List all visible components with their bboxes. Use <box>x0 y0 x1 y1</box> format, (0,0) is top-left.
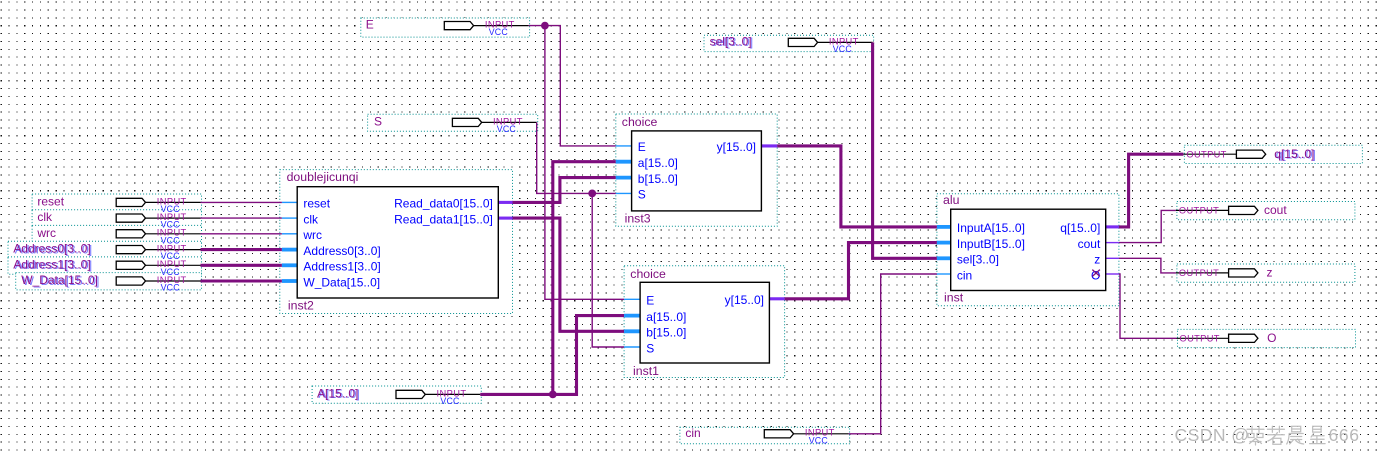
selection box output pin O <box>1178 329 1356 347</box>
svg-text:VCC: VCC <box>833 44 853 54</box>
svg-text:q[15..0]: q[15..0] <box>1274 147 1314 161</box>
svg-text:reset: reset <box>37 194 64 208</box>
input pin E <box>366 18 529 38</box>
port stub inst1.E <box>624 298 640 300</box>
svg-text:cin: cin <box>957 268 972 282</box>
output pin z <box>1176 266 1273 280</box>
port stub inst1.S <box>624 346 640 348</box>
wire reset to inst2.reset <box>201 201 282 203</box>
port stub inst2.wrc <box>282 233 297 235</box>
svg-text:sel[3..0]: sel[3..0] <box>710 34 752 48</box>
port stub inst1.y <box>769 297 784 300</box>
svg-text:VCC: VCC <box>489 27 509 37</box>
output pin cout <box>1176 203 1287 217</box>
svg-text:OUTPUT: OUTPUT <box>1186 149 1226 159</box>
input pin clk <box>37 210 200 230</box>
svg-text:inst1: inst1 <box>633 364 659 378</box>
svg-text:inst3: inst3 <box>625 211 651 225</box>
selection box input pin cin <box>680 427 850 444</box>
svg-text:666: 666 <box>1329 425 1360 445</box>
svg-text:Address1[3..0]: Address1[3..0] <box>303 260 380 274</box>
selection box doublejicunqi <box>280 170 513 314</box>
input pin sel[3..0] <box>710 34 873 54</box>
svg-text:a[15..0]: a[15..0] <box>638 156 678 170</box>
svg-text:S: S <box>374 114 382 128</box>
svg-text:InputA[15..0]: InputA[15..0] <box>957 221 1025 235</box>
wire inst3.y to alu.InputA <box>777 146 937 227</box>
port stub inst2.Address0 <box>282 248 297 252</box>
svg-text:E: E <box>646 294 654 308</box>
wire W_Data to inst2.W_Data <box>201 279 282 282</box>
selection box choice inst1 <box>624 266 785 378</box>
selection box output pin q[15..0] <box>1184 145 1362 163</box>
port stub alu.cin <box>937 273 951 275</box>
output pin q[15..0] <box>1183 147 1315 162</box>
svg-text:q[15..0]: q[15..0] <box>1060 221 1100 235</box>
svg-text:y[15..0]: y[15..0] <box>725 293 764 307</box>
selection box input pin clk <box>32 210 201 227</box>
wire Address1 to inst2.Address1 <box>201 264 282 267</box>
selection box input pin Address0[3..0] <box>8 241 202 258</box>
input pin reset <box>37 194 200 214</box>
wire S branch to inst1.S <box>592 193 624 347</box>
svg-text:z: z <box>1267 266 1273 280</box>
port stub alu.InputA <box>937 225 951 229</box>
selection box input pin A[15..0] <box>312 386 481 403</box>
port stub inst2.clk <box>282 217 297 219</box>
svg-text:Address1[3..0]: Address1[3..0] <box>13 257 90 271</box>
svg-text:z: z <box>1094 253 1100 267</box>
svg-text:reset: reset <box>303 197 330 211</box>
block choice (inst1) <box>630 267 769 378</box>
selection box input pin sel[3..0] <box>704 35 874 51</box>
port stub inst3.b <box>616 176 632 180</box>
svg-text:VCC: VCC <box>497 124 517 134</box>
junction E net <box>541 22 549 30</box>
port stub alu.q <box>1106 225 1119 228</box>
junction S net <box>588 190 596 198</box>
selection box input pin S <box>368 114 538 131</box>
svg-text:cout: cout <box>1264 203 1287 217</box>
port stub alu.z <box>1106 257 1119 259</box>
svg-text:cin: cin <box>685 426 700 440</box>
svg-text:clk: clk <box>37 210 53 224</box>
wire wrc to inst2.wrc <box>201 233 282 235</box>
svg-text:E: E <box>366 18 374 32</box>
port stub inst2.reset <box>282 201 297 203</box>
svg-text:sel[3..0]: sel[3..0] <box>957 253 999 267</box>
svg-text:alu: alu <box>943 193 960 207</box>
block alu (inst) <box>943 193 1106 305</box>
svg-text:W_Data[15..0]: W_Data[15..0] <box>303 275 380 289</box>
input pin Address1[3..0] <box>13 257 200 277</box>
wire cin to alu.cin <box>849 274 937 434</box>
svg-text:VCC: VCC <box>440 396 460 406</box>
input pin cin <box>685 426 848 446</box>
watermark CSDN @蓼若晨星666 <box>1175 425 1360 445</box>
svg-text:E: E <box>638 140 646 154</box>
svg-text:OUTPUT: OUTPUT <box>1179 268 1219 278</box>
port stub inst2.W_Data <box>282 279 297 283</box>
selection box input pin Address1[3..0] <box>8 257 202 274</box>
svg-text:Read_data0[15..0]: Read_data0[15..0] <box>394 197 493 211</box>
wire clk to inst2.clk <box>201 217 282 219</box>
junction A bus <box>549 391 557 399</box>
selection box output pin cout <box>1177 202 1355 220</box>
wire alu.z to z pin <box>1119 258 1176 273</box>
selection box input pin reset <box>32 194 201 211</box>
wire alu.O to O pin <box>1119 274 1177 338</box>
selection box input pin E <box>361 18 530 37</box>
port stub inst1.a <box>624 314 640 318</box>
wire alu.q to q pin <box>1119 154 1184 227</box>
svg-text:wrc: wrc <box>36 226 56 240</box>
svg-text:a[15..0]: a[15..0] <box>646 310 686 324</box>
svg-text:OUTPUT: OUTPUT <box>1180 334 1220 344</box>
svg-text:b[15..0]: b[15..0] <box>638 172 678 186</box>
svg-text:choice: choice <box>630 267 666 281</box>
port stub inst1.b <box>624 329 640 333</box>
block doublejicunqi (inst2) <box>287 170 499 313</box>
svg-text:O: O <box>1267 331 1276 345</box>
svg-text:choice: choice <box>622 115 658 129</box>
port stub inst2.Read_data1 <box>498 217 512 220</box>
port stub inst3.E <box>616 145 632 147</box>
wire A[15..0] to junction <box>480 393 553 396</box>
wire E branch to inst1.E <box>545 26 624 300</box>
input pin Address0[3..0] <box>13 242 200 262</box>
svg-text:VCC: VCC <box>809 435 829 445</box>
port stub inst3.S <box>616 192 632 194</box>
selection box input pin W_Data[15..0] <box>16 273 202 290</box>
wire E to inst3.E <box>529 26 616 146</box>
port stub alu.cout <box>1106 242 1119 244</box>
input pin A[15..0] <box>317 386 480 406</box>
wire Read_data0 to inst3.b <box>513 178 616 203</box>
svg-text:S: S <box>638 188 646 202</box>
svg-text:W_Data[15..0]: W_Data[15..0] <box>21 273 98 287</box>
svg-text:VCC: VCC <box>161 283 181 293</box>
input pin wrc <box>36 226 200 246</box>
port stub inst3.y <box>761 144 777 147</box>
svg-text:InputB[15..0]: InputB[15..0] <box>957 237 1025 251</box>
output pin O <box>1177 331 1277 345</box>
input pin W_Data[15..0] <box>21 273 200 293</box>
port stub alu.InputB <box>937 241 951 245</box>
port stub inst2.Read_data0 <box>498 201 512 204</box>
block choice (inst3) <box>622 115 762 226</box>
wire inst1.y to alu.InputB <box>785 243 937 299</box>
svg-text:cout: cout <box>1078 237 1101 251</box>
wire alu.cout to cout pin <box>1119 210 1176 242</box>
selection box input pin wrc <box>32 225 201 242</box>
svg-text:inst: inst <box>944 291 964 305</box>
wire A branch to inst3.a <box>553 162 616 395</box>
svg-text:y[15..0]: y[15..0] <box>717 140 756 154</box>
marker X at alu port O <box>1092 270 1100 277</box>
selection box choice inst3 <box>616 114 777 226</box>
svg-text:b[15..0]: b[15..0] <box>646 326 686 340</box>
svg-text:CSDN @: CSDN @ <box>1175 425 1250 445</box>
wire Read_data1 to inst1.b <box>513 218 625 331</box>
svg-text:doublejicunqi: doublejicunqi <box>287 170 359 184</box>
wire S to inst3.S <box>537 122 616 193</box>
wire sel to alu.sel <box>873 42 937 258</box>
port stub alu.sel <box>937 256 951 260</box>
svg-text:wrc: wrc <box>302 228 322 242</box>
wire Address0 to inst2.Address0 <box>201 248 282 251</box>
wire A branch to inst1.a <box>553 316 624 395</box>
svg-text:inst2: inst2 <box>288 299 314 313</box>
svg-text:clk: clk <box>303 212 319 226</box>
svg-text:OUTPUT: OUTPUT <box>1179 206 1219 216</box>
input pin S <box>374 114 537 134</box>
svg-text:Read_data1[15..0]: Read_data1[15..0] <box>394 212 493 226</box>
svg-text:Address0[3..0]: Address0[3..0] <box>13 242 90 256</box>
port stub inst2.Address1 <box>282 263 297 267</box>
svg-text:Address0[3..0]: Address0[3..0] <box>303 244 380 258</box>
port stub alu.O <box>1106 273 1119 275</box>
selection box alu <box>937 194 1119 306</box>
port stub inst3.a <box>616 160 632 164</box>
svg-text:S: S <box>646 341 654 355</box>
selection box output pin z <box>1177 264 1355 282</box>
svg-text:A[15..0]: A[15..0] <box>317 386 358 400</box>
